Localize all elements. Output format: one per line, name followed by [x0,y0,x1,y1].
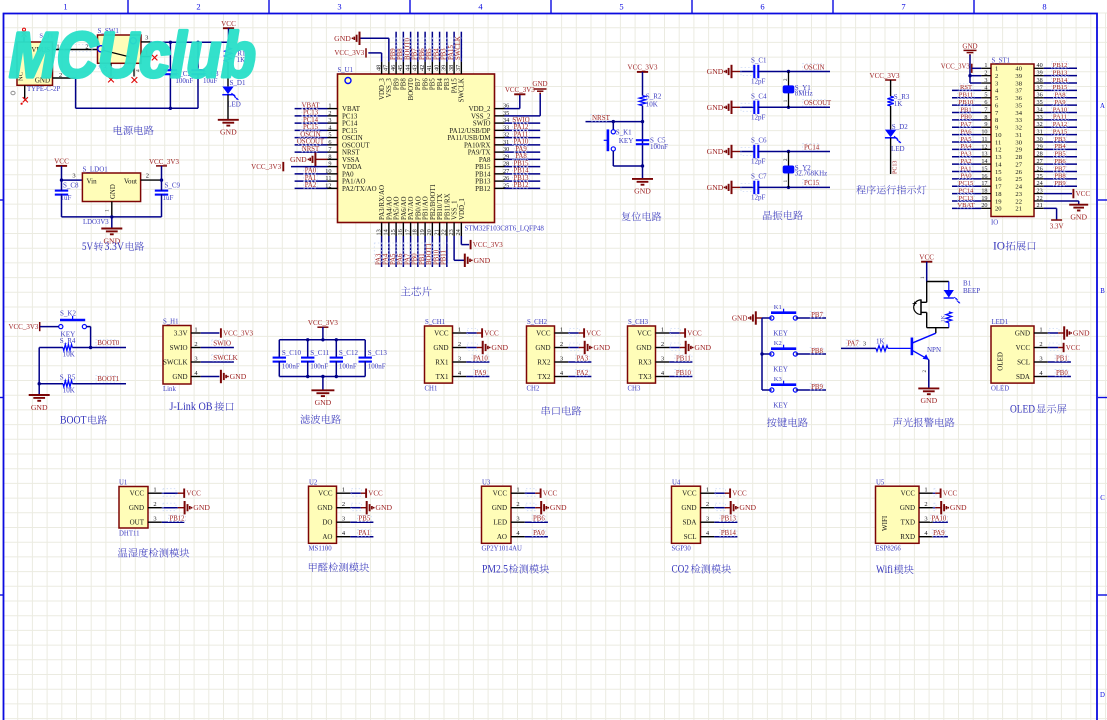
svg-text:STM32F103C8T6_LQFP48: STM32F103C8T6_LQFP48 [465,225,545,233]
svg-text:DHT11: DHT11 [119,531,140,538]
svg-text:VCC: VCC [682,490,697,498]
svg-text:18: 18 [995,191,1002,198]
svg-text:PC13: PC13 [893,161,899,174]
svg-text:PA7: PA7 [960,121,972,128]
PM2.5 module U3 GP2Y1014AU [482,479,568,575]
svg-text:PC14: PC14 [959,187,974,194]
svg-text:S_CH2: S_CH2 [527,319,548,326]
svg-text:5: 5 [619,2,623,12]
svg-text:PA3: PA3 [577,356,589,363]
svg-text:PB5: PB5 [359,516,371,523]
power 3.3V pin21 [1044,207,1057,209]
OLED display connector LED1 [991,319,1090,416]
svg-text:GND: GND [491,343,508,352]
svg-text:PB5: PB5 [430,78,437,90]
net SWCLK pin3 [201,361,234,363]
svg-text:PB14: PB14 [721,530,737,537]
svg-text:34: 34 [1015,110,1022,117]
svg-text:PA12: PA12 [514,124,529,131]
svg-text:PC15: PC15 [804,180,820,187]
svg-text:23: 23 [1015,191,1022,198]
svg-text:PA7: PA7 [847,340,859,347]
svg-text:PA4: PA4 [960,143,972,150]
svg-text:PB3: PB3 [1054,136,1066,143]
svg-text:VCC: VCC [130,490,145,498]
LED inside beeper [948,282,950,291]
svg-text:1: 1 [63,2,67,12]
key K3 [762,389,772,391]
svg-text:IO: IO [991,220,998,227]
svg-text:GND: GND [1073,329,1090,338]
svg-text:PB6: PB6 [1054,158,1066,165]
svg-text:PB1: PB1 [1056,356,1068,363]
svg-text:PA1/AO: PA1/AO [342,179,366,186]
svg-text:SWIO: SWIO [213,340,231,348]
svg-text:PC13: PC13 [303,110,319,117]
title 晶振电路 [763,211,772,220]
svg-text:GND: GND [707,147,724,156]
svg-text:PA9: PA9 [933,530,945,537]
svg-text:VCC_3V3: VCC_3V3 [941,64,971,71]
svg-text:S_C10: S_C10 [282,349,302,357]
svg-text:VBAT: VBAT [342,106,361,113]
svg-text:40: 40 [1015,66,1022,73]
wire bottom rail [62,216,162,218]
svg-text:K2: K2 [774,340,782,347]
svg-text:Vin: Vin [87,177,98,185]
svg-text:PB13: PB13 [475,179,491,186]
svg-text:SCL: SCL [1017,358,1030,366]
svg-text:RX1: RX1 [435,358,449,366]
capacitor C5 100nF [636,139,649,141]
svg-text:GND: GND [375,503,392,512]
svg-text:PA5/AO: PA5/AO [394,196,401,220]
svg-text:VSSA: VSSA [342,157,360,164]
svg-text:PA1: PA1 [960,165,971,172]
serial connector CH1 [425,326,453,383]
svg-text:PA6: PA6 [960,128,972,135]
svg-text:KEY: KEY [619,137,635,145]
svg-text:100nF: 100nF [368,362,386,370]
svg-text:PA1: PA1 [359,530,370,537]
reset circuit [586,64,669,221]
svg-text:MCUclub: MCUclub [9,19,256,91]
capacitor S_C13 100nF [364,340,366,358]
svg-text:OSCOUT: OSCOUT [297,139,325,146]
svg-text:PA12/USB/DP: PA12/USB/DP [449,128,490,135]
svg-text:LDO3V3: LDO3V3 [83,219,109,226]
svg-text:LED: LED [891,145,905,153]
svg-text:GND: GND [315,398,332,407]
svg-text:SWIO: SWIO [170,344,188,352]
svg-text:PB12: PB12 [1053,62,1068,69]
svg-text:100nF: 100nF [310,362,328,370]
svg-text:VCC: VCC [1076,190,1091,198]
svg-text:J-Link OB: J-Link OB [170,401,213,413]
ground [29,394,50,396]
filter circuit [273,319,388,424]
svg-text:PB14: PB14 [1053,77,1068,84]
svg-text:VCC: VCC [943,490,958,498]
svg-text:D: D [1100,692,1105,699]
key circuit K1 K2 K3 [732,304,826,427]
svg-text:32.768KHz: 32.768KHz [795,169,827,177]
svg-text:2: 2 [196,2,200,12]
svg-text:PA9: PA9 [1054,99,1066,106]
svg-text:VCC_3V3: VCC_3V3 [473,241,503,249]
svg-text:1: 1 [105,209,111,212]
svg-text:PA10: PA10 [1053,106,1068,113]
CO2 module U4 SGP30 [672,479,757,575]
power VCC [56,165,67,167]
title 串口电路 [542,406,550,415]
svg-text:PA2: PA2 [577,370,589,377]
svg-text:S_C12: S_C12 [339,349,359,357]
svg-text:S_C6: S_C6 [751,137,767,145]
wire rails [279,339,365,341]
svg-text:GND: GND [110,184,117,199]
svg-text:3: 3 [337,2,341,12]
svg-text:12pF: 12pF [751,78,766,86]
capacitor S_C11 100nF [307,340,309,358]
J-Link OB connector H1 [163,319,254,414]
svg-text:3: 3 [72,173,75,180]
svg-text:VSS_2: VSS_2 [471,113,491,120]
svg-text:PA0: PA0 [533,530,545,537]
svg-text:10K: 10K [63,387,75,395]
svg-text:PB2/BOOT1: PB2/BOOT1 [430,183,437,220]
svg-text:35: 35 [1015,102,1022,109]
svg-text:PA2: PA2 [305,182,317,189]
svg-text:22: 22 [1015,198,1022,205]
wire top rail [150,41,228,43]
svg-text:OLED: OLED [991,385,1009,392]
svg-text:GND: GND [1070,213,1087,222]
svg-text:PB8: PB8 [811,348,823,355]
resistor R1 1K [227,42,229,47]
svg-text:36: 36 [1015,95,1022,102]
svg-text:S_K2: S_K2 [60,309,76,317]
svg-text:PA2: PA2 [960,158,971,165]
title 程序运行指示灯 [856,185,866,194]
svg-text:GND: GND [532,80,547,88]
title 按键电路 [767,418,777,428]
ground VSS_3 pin47 [360,37,389,39]
svg-text:PB11: PB11 [676,356,691,363]
wire VBUS to switch [53,49,98,51]
svg-text:OSCIN: OSCIN [300,131,320,138]
svg-text:PC15: PC15 [342,128,358,135]
svg-text:GND: GND [694,343,711,352]
capacitor C2 100nF [169,41,172,44]
svg-text:10K: 10K [646,100,658,108]
svg-text:PB15: PB15 [475,164,491,171]
ground GND power [218,119,239,121]
svg-text:2: 2 [995,73,998,80]
wire Vout [141,179,162,181]
svg-text:VCC: VCC [901,490,916,498]
svg-text:PA10: PA10 [931,516,946,523]
svg-text:PA9: PA9 [475,370,487,377]
svg-text:PB10: PB10 [433,249,440,265]
svg-text:PA2/TX/AO: PA2/TX/AO [342,186,377,193]
svg-text:S_C11: S_C11 [310,349,329,357]
svg-text:PB13: PB13 [721,516,737,523]
svg-text:6: 6 [760,2,764,12]
svg-text:1uF: 1uF [61,194,72,202]
crystal S_Y1 8MHz [787,70,790,73]
svg-text:39: 39 [1015,73,1022,80]
svg-text:S_C8: S_C8 [63,182,79,190]
svg-text:S_C9: S_C9 [165,182,181,190]
svg-text:PB13: PB13 [513,175,529,182]
svg-text:GND: GND [474,256,491,265]
svg-text:BOOT0: BOOT0 [97,340,120,347]
title 电源电路 [114,125,123,134]
svg-text:12pF: 12pF [751,194,766,202]
svg-text:PB11: PB11 [959,92,973,99]
title 主芯片 [401,287,411,296]
svg-text:PC13: PC13 [959,195,974,202]
title 滤波电路 [300,415,310,424]
IO expansion header ST1 [941,43,1091,253]
svg-text:BOOT1: BOOT1 [97,376,119,383]
svg-text:11: 11 [995,139,1001,146]
svg-text:PB15: PB15 [1053,84,1068,91]
resistor 1K inside beeper [946,312,952,323]
switch SW1 [98,35,142,63]
svg-text:RST: RST [960,84,972,91]
svg-text:KEY: KEY [773,330,789,338]
svg-text:2: 2 [146,173,149,180]
svg-text:1K: 1K [894,100,903,108]
svg-text:BEEP: BEEP [963,287,980,295]
power VDDA pin9 VCC_3V3 [291,166,328,168]
svg-text:MS1100: MS1100 [309,546,333,553]
ground [101,228,122,230]
power VCC_3V3 [637,71,648,73]
svg-text:OLED: OLED [997,352,1005,371]
LED D1 [227,62,229,86]
svg-text:Wifi: Wifi [876,564,893,576]
svg-text:SWCLK: SWCLK [213,354,238,362]
svg-text:GND: GND [172,373,187,381]
svg-text:GND: GND [550,503,567,512]
title 温湿度检测模块 [118,548,128,557]
svg-text:PB7: PB7 [415,78,422,90]
svg-text:12pF: 12pF [751,158,766,166]
svg-text:PB0: PB0 [960,114,972,121]
svg-text:AO: AO [322,533,332,541]
svg-text:S_CH3: S_CH3 [628,319,649,326]
svg-text:SGP30: SGP30 [672,546,692,553]
svg-text:GND: GND [129,504,144,512]
svg-text:B: B [1100,288,1105,295]
capacitor S_C10 100nF [278,340,280,358]
power VDD_2 pin36 VCC_3V3 [505,108,520,110]
wire trunk [761,318,763,390]
svg-text:S_C4: S_C4 [751,92,767,100]
svg-text:TX1: TX1 [436,373,449,381]
svg-text:VCC: VCC [54,158,69,166]
sound-light alarm circuit [841,254,980,428]
power VDD_1 pin24 VCC_3V3 [460,236,462,245]
svg-text:VCC_3V3: VCC_3V3 [8,323,38,331]
svg-text:VCC: VCC [1016,344,1031,352]
svg-text:3: 3 [863,340,866,347]
buzzer B1 BEEP [927,281,949,283]
key K1 [612,122,614,130]
ground VSS_2 pin35 [505,115,541,117]
svg-text:VSS_3: VSS_3 [386,78,393,98]
svg-text:NRST: NRST [342,150,360,157]
svg-text:GND: GND [230,372,247,381]
svg-text:PA9/TX: PA9/TX [468,150,491,157]
capacitor C8 1uF [55,190,68,192]
svg-text:PA10/RX: PA10/RX [464,142,491,149]
svg-text:31: 31 [1015,132,1022,139]
svg-text:PB14: PB14 [513,168,529,175]
svg-text:OSCIN: OSCIN [342,135,363,142]
svg-text:PB0: PB0 [1056,370,1068,377]
svg-text:3.3V: 3.3V [105,241,125,253]
svg-text:NPN: NPN [927,346,941,354]
svg-text:U2: U2 [309,479,318,486]
svg-text:PA1: PA1 [305,175,316,182]
svg-text:VCC: VCC [687,329,702,337]
svg-text:GND: GND [220,128,237,137]
svg-text:VCC: VCC [919,254,934,262]
svg-text:100nF: 100nF [282,362,300,370]
svg-text:PB1/AO: PB1/AO [423,196,430,220]
svg-text:PA8: PA8 [1054,92,1066,99]
svg-text:PA10: PA10 [514,139,529,146]
svg-text:GND: GND [739,503,756,512]
ground VSS_1 pin23 [453,236,455,260]
svg-text:KEY: KEY [773,366,789,374]
svg-text:VCC: VCC [586,329,601,337]
BOOT circuit [8,309,126,426]
svg-text:WIFI: WIFI [881,515,889,531]
capacitor S_C12 100nF [335,340,337,358]
svg-text:LED1: LED1 [992,319,1009,326]
power VCC pin23 [1044,193,1072,195]
svg-text:25: 25 [1015,176,1022,183]
svg-text:PB12: PB12 [475,186,491,193]
ground [642,166,644,179]
svg-text:VCC_3V3: VCC_3V3 [251,163,281,171]
svg-text:GND: GND [962,43,977,51]
svg-text:15: 15 [995,169,1002,176]
node BOOT0 [96,339,117,346]
svg-text:BOOT: BOOT [60,415,87,427]
svg-text:A: A [1100,103,1105,110]
node NRST [586,121,643,123]
connector T1 TYPE-C-2P [17,42,53,85]
svg-text:CH3: CH3 [628,385,641,392]
svg-text:PA6/AO: PA6/AO [401,196,408,220]
svg-text:8: 8 [1042,2,1046,12]
svg-text:PM2.5: PM2.5 [482,564,508,576]
serial connector CH2 [527,326,555,383]
svg-text:3.3V: 3.3V [174,329,188,337]
svg-text:VCC: VCC [536,329,551,337]
svg-text:S_ST1: S_ST1 [992,58,1011,65]
svg-text:GND: GND [593,343,610,352]
svg-text:PB11/RX: PB11/RX [444,193,451,220]
svg-text:GND: GND [317,504,332,512]
svg-text:S_R4: S_R4 [60,337,76,345]
svg-text:PB6: PB6 [423,78,430,90]
program running indicator [856,72,926,195]
svg-text:PA3/RX/AO: PA3/RX/AO [379,185,386,220]
svg-text:GND: GND [950,503,967,512]
transistor Q NPN [935,328,937,334]
svg-text:GND: GND [334,34,351,43]
serial connector CH3 [628,326,656,383]
svg-text:13: 13 [995,154,1002,161]
svg-text:PB8: PB8 [401,78,408,90]
regulator LDO1 LDO3V3 [82,173,140,202]
svg-text:1K: 1K [876,337,885,345]
svg-text:TX2: TX2 [538,373,551,381]
svg-text:32: 32 [1015,125,1022,132]
svg-text:PA0: PA0 [960,173,972,180]
svg-text:RX2: RX2 [537,358,551,366]
svg-text:C: C [1100,495,1105,502]
svg-text:SWCLK: SWCLK [455,36,462,60]
svg-text:GND: GND [193,503,210,512]
svg-text:S_R5: S_R5 [60,373,76,381]
svg-text:SDA: SDA [682,519,696,527]
svg-text:S_R2: S_R2 [646,93,662,101]
svg-text:GND: GND [636,344,651,352]
svg-text:PB14: PB14 [475,171,491,178]
svg-text:26: 26 [1015,169,1022,176]
svg-text:VDDA: VDDA [342,164,362,171]
svg-text:VCC: VCC [484,329,499,337]
svg-text:3.3V: 3.3V [1050,223,1064,231]
svg-text:SDA: SDA [1016,373,1030,381]
svg-text:GND: GND [31,403,48,412]
wire GND rail [53,77,76,79]
svg-text:GND: GND [492,504,507,512]
svg-text:GND: GND [707,103,724,112]
svg-text:PA11: PA11 [514,131,529,138]
svg-text:VDD_2: VDD_2 [469,106,491,113]
svg-text:BOOT0: BOOT0 [408,78,415,101]
svg-text:VCC_3V3: VCC_3V3 [334,49,364,57]
svg-text:PB13: PB13 [1053,69,1068,76]
svg-text:PB8: PB8 [1054,173,1066,180]
MCU U1 STM32F103C8T6 [251,32,547,297]
svg-text:SWCLK: SWCLK [163,358,188,366]
crystal circuit [707,57,832,221]
svg-text:VCC: VCC [368,490,383,498]
power circuit [11,20,246,137]
svg-text:PB4: PB4 [1054,143,1066,150]
svg-text:5V: 5V [82,241,94,253]
svg-text:PB9: PB9 [811,384,823,391]
svg-text:27: 27 [1015,161,1022,168]
svg-text:NRST: NRST [592,114,611,122]
svg-text:OLED: OLED [1010,404,1035,416]
svg-text:Vout: Vout [124,177,137,185]
svg-text:PB0/AO: PB0/AO [415,196,422,220]
svg-text:K3: K3 [774,376,783,383]
svg-text:S_C7: S_C7 [751,172,767,180]
svg-text:PB7: PB7 [1054,165,1066,172]
